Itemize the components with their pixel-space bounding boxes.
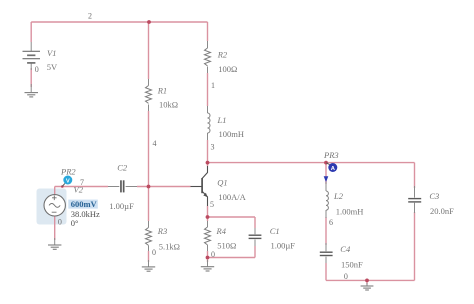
svg-text:C4: C4 [340,244,351,254]
svg-text:600mV: 600mV [71,199,98,209]
svg-text:0°: 0° [71,218,79,228]
svg-text:L1: L1 [217,115,227,125]
svg-text:510Ω: 510Ω [217,240,236,250]
svg-text:150nF: 150nF [341,260,363,270]
svg-text:0: 0 [211,250,215,259]
svg-text:100A/A: 100A/A [218,192,246,202]
svg-text:V1: V1 [47,48,56,58]
svg-text:PR2: PR2 [60,167,76,177]
svg-text:Q1: Q1 [217,178,227,188]
svg-text:5.1kΩ: 5.1kΩ [159,241,180,251]
svg-text:C1: C1 [270,226,280,236]
svg-text:C3: C3 [429,191,439,201]
svg-text:R2: R2 [217,49,228,59]
svg-text:V2: V2 [74,185,84,195]
svg-text:C2: C2 [117,163,128,173]
svg-text:1.00µF: 1.00µF [271,240,296,250]
svg-text:0: 0 [35,65,39,74]
svg-text:0: 0 [58,218,62,227]
svg-text:20.0nF: 20.0nF [430,206,454,216]
svg-text:0: 0 [152,248,156,257]
svg-text:V: V [66,178,70,184]
svg-text:2: 2 [88,12,92,21]
svg-text:5: 5 [210,200,214,209]
svg-text:1: 1 [211,81,215,90]
svg-text:100Ω: 100Ω [218,64,237,74]
svg-text:R3: R3 [157,226,167,236]
svg-text:PR3: PR3 [323,150,339,160]
svg-text:R1: R1 [157,86,167,96]
svg-text:6: 6 [329,218,333,227]
svg-text:4: 4 [153,139,157,148]
svg-text:3: 3 [211,143,215,152]
svg-text:1.00µF: 1.00µF [109,201,134,211]
svg-text:10kΩ: 10kΩ [159,100,178,110]
svg-text:1.00mH: 1.00mH [336,206,364,216]
svg-text:0: 0 [344,272,348,281]
svg-text:L2: L2 [333,191,344,201]
svg-text:R4: R4 [216,226,227,236]
svg-text:5V: 5V [47,62,58,72]
svg-text:100mH: 100mH [219,129,245,139]
